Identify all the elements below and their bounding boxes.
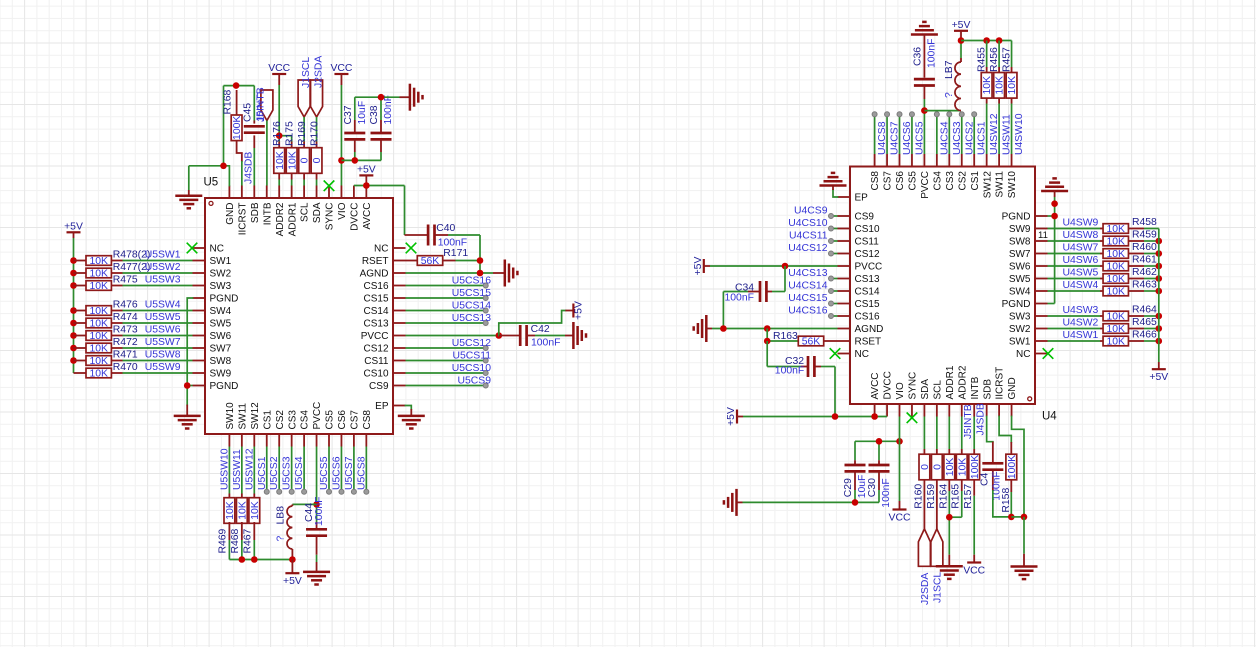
svg-text:C29: C29: [843, 478, 854, 497]
svg-text:CS7: CS7: [883, 171, 894, 191]
svg-text:CS8: CS8: [362, 410, 373, 430]
svg-text:SDA: SDA: [920, 379, 931, 400]
ground PGND U5: [174, 405, 201, 429]
connector flag J2SDA: [311, 56, 325, 117]
svg-text:PVCC: PVCC: [312, 402, 323, 430]
wire LB7 bottom: [924, 110, 961, 112]
power +5V (U4 PVCC): [693, 257, 710, 276]
resistor R159: [926, 417, 944, 529]
no-connect NC U4 left: [830, 348, 841, 359]
wire U4SW8: [1048, 240, 1101, 242]
svg-text:R459: R459: [1132, 230, 1157, 241]
svg-text:VIO: VIO: [337, 202, 348, 219]
wire C29 C30 top rail: [855, 441, 900, 460]
wire GND net top-left: [189, 86, 230, 190]
node U5CS15: [452, 288, 491, 301]
ground EP U4: [820, 173, 847, 190]
svg-text:10K: 10K: [89, 256, 108, 267]
svg-text:U5CS8: U5CS8: [356, 456, 367, 490]
resistor R171: [406, 248, 469, 267]
svg-text:U5SW12: U5SW12: [244, 448, 255, 490]
svg-text:CS3: CS3: [945, 171, 956, 191]
svg-text:10K: 10K: [982, 76, 993, 95]
wire U4CS13: [834, 278, 838, 280]
wire U4CS3 column: [948, 117, 950, 154]
svg-text:10K: 10K: [89, 319, 108, 330]
node U5SW5: [145, 312, 181, 323]
svg-text:U5CS2: U5CS2: [269, 456, 280, 490]
node U5CS6: [331, 456, 344, 494]
junction AVCC +5V: [363, 182, 370, 189]
wire R467 to +5V rail: [253, 540, 255, 560]
svg-text:CS7: CS7: [350, 410, 361, 430]
svg-text:SW9: SW9: [210, 369, 232, 380]
svg-text:PGND: PGND: [210, 381, 239, 392]
svg-text:NC: NC: [210, 244, 224, 255]
junction C36-LB7: [921, 107, 928, 114]
svg-text:U5SW11: U5SW11: [232, 449, 243, 490]
svg-text:100K: 100K: [1007, 455, 1018, 479]
resistor R456: [989, 47, 1006, 104]
junction R455 top: [983, 37, 990, 44]
wire R157 to VCC: [973, 496, 975, 555]
svg-text:PVCC: PVCC: [855, 262, 883, 273]
wire U4CS8 column: [874, 117, 876, 154]
ground EP U5: [398, 409, 425, 429]
svg-text:IICRST: IICRST: [995, 367, 1006, 400]
svg-text:R461: R461: [1132, 255, 1157, 266]
svg-text:SW4: SW4: [1009, 287, 1031, 298]
wire U5SW8: [123, 360, 193, 362]
svg-text:ADDR1: ADDR1: [945, 365, 956, 399]
svg-text:U4SW10: U4SW10: [1014, 113, 1025, 155]
wire SDB to C4: [987, 417, 993, 442]
svg-text:R159: R159: [926, 484, 937, 509]
wire U5CS2 column: [278, 447, 280, 490]
wire U4CS5 column: [911, 117, 913, 154]
svg-text:CS16: CS16: [363, 281, 388, 292]
svg-text:R475: R475: [113, 275, 138, 286]
node U5SW12: [244, 448, 255, 490]
node U5SW4: [145, 300, 181, 311]
svg-text:CS6: CS6: [895, 171, 906, 191]
wire R175 to ADDR1: [291, 180, 293, 186]
junction rail-U5SW6: [70, 332, 77, 339]
svg-text:11: 11: [1038, 230, 1048, 241]
svg-text:R163: R163: [773, 331, 798, 342]
wire RSET to C32: [767, 341, 801, 367]
ground PGND U4: [1041, 178, 1068, 197]
node U5SW2: [145, 262, 181, 273]
svg-text:10K: 10K: [275, 151, 286, 170]
node U5CS12: [452, 338, 491, 351]
svg-text:U5CS13: U5CS13: [452, 313, 491, 324]
junction C29 bottom: [852, 499, 859, 506]
svg-text:GND: GND: [1007, 377, 1018, 399]
wire R158 to GND node: [1010, 492, 1012, 517]
resistor R170: [310, 121, 324, 180]
node U5SW8: [145, 350, 181, 361]
svg-text:U4SW2: U4SW2: [1063, 318, 1099, 329]
power VCC (below VIO): [889, 501, 911, 524]
svg-text:SW12: SW12: [982, 171, 993, 199]
svg-text:R467: R467: [242, 528, 253, 553]
wire R464 to rail: [1144, 315, 1159, 317]
wire PVCC bottom column: [316, 447, 318, 523]
svg-text:R473: R473: [113, 325, 138, 336]
svg-text:10K: 10K: [957, 458, 968, 477]
junction RSET node: [477, 257, 484, 264]
wire LB8 top: [292, 503, 316, 505]
svg-text:SW5: SW5: [210, 319, 232, 330]
capacitor C42: [499, 324, 561, 349]
svg-text:R474: R474: [113, 312, 138, 323]
svg-text:CS12: CS12: [363, 344, 388, 355]
svg-text:SW1: SW1: [1009, 337, 1031, 348]
svg-text:0: 0: [932, 464, 943, 470]
svg-text:CS15: CS15: [855, 299, 880, 310]
junction R467 rail: [251, 556, 258, 563]
svg-text:U5CS14: U5CS14: [452, 301, 491, 312]
svg-text:CS12: CS12: [855, 249, 880, 260]
svg-text:10K: 10K: [1107, 274, 1126, 285]
wire +5V to R456: [998, 41, 1000, 68]
junction R460 rail: [1156, 250, 1163, 257]
node U5SW10: [219, 448, 230, 490]
svg-text:CS6: CS6: [337, 410, 348, 430]
wire R455 to pin: [986, 104, 988, 155]
svg-text:+5V: +5V: [693, 257, 704, 276]
junction R168 top: [233, 82, 240, 89]
no-connect NC U5 left: [187, 243, 198, 254]
wire EP to ground: [406, 406, 412, 410]
wire caps top to ground: [355, 97, 400, 120]
node U5SW11: [232, 449, 243, 490]
node U5CS5: [319, 456, 332, 494]
svg-text:56K: 56K: [421, 256, 440, 267]
svg-text:SW3: SW3: [210, 281, 232, 292]
junction C38 top: [378, 94, 385, 101]
node U5CS10: [452, 363, 491, 376]
wire VIO to VCC: [899, 417, 901, 502]
junction AGND node: [477, 270, 484, 277]
svg-text:U4SW12: U4SW12: [989, 113, 1000, 155]
node U4CS4: [934, 112, 950, 155]
svg-text:CS4: CS4: [932, 171, 943, 191]
wire PGND1 to PGND2 chain: [187, 298, 192, 405]
junction R465 rail: [1156, 325, 1163, 332]
wire +5V top rail U4: [961, 41, 1012, 68]
svg-text:U5CS4: U5CS4: [294, 456, 305, 490]
junction ADDR pulldown: [946, 514, 953, 521]
wire +5V rail U5 top: [354, 186, 405, 236]
svg-text:J4SDB: J4SDB: [976, 403, 987, 435]
svg-text:SW2: SW2: [210, 269, 232, 280]
svg-text:PVCC: PVCC: [920, 171, 931, 199]
svg-text:ADDR2: ADDR2: [957, 365, 968, 399]
wire C32 to +5V rail: [821, 367, 835, 417]
wire U5SW6: [123, 335, 193, 337]
wire INTB column: [266, 121, 268, 186]
power +5V (U4 top): [952, 20, 971, 41]
svg-text:J2SDA: J2SDA: [920, 573, 931, 605]
svg-text:U4CS13: U4CS13: [788, 268, 827, 279]
junction VIO caps: [338, 157, 345, 164]
junction rail-U5SW7: [70, 345, 77, 352]
svg-text:10K: 10K: [250, 501, 261, 520]
wire U4SW1: [1048, 340, 1101, 342]
svg-text:J2SDA: J2SDA: [314, 56, 325, 88]
junction +5V LB7: [958, 37, 965, 44]
wire U5CS12: [406, 347, 484, 349]
svg-text:SW8: SW8: [210, 356, 232, 367]
svg-text:R472: R472: [113, 337, 138, 348]
node U4SW12: [989, 113, 1000, 155]
svg-text:R463: R463: [1132, 280, 1157, 291]
wire U5SW7: [123, 347, 193, 349]
wire R164 R165 to ground: [949, 491, 961, 555]
resistor R469: [217, 494, 236, 554]
svg-text:SCL: SCL: [932, 380, 943, 400]
wire +5V right rail: [1158, 229, 1160, 363]
wire cap bottom rail: [341, 152, 381, 160]
svg-text:SW6: SW6: [1009, 262, 1031, 273]
svg-text:CS14: CS14: [855, 287, 880, 298]
junction GND node 1: [1008, 514, 1015, 521]
wire C42 to ground: [535, 335, 565, 337]
svg-text:R168: R168: [222, 89, 233, 114]
svg-text:U4SW4: U4SW4: [1063, 280, 1099, 291]
wire U4CS11: [834, 240, 838, 242]
ground top-middle: [400, 84, 423, 111]
no-connect NC U4 right: [1043, 348, 1054, 359]
resistor R160: [913, 417, 931, 529]
svg-text:PVCC: PVCC: [361, 331, 389, 342]
svg-text:J4SDB: J4SDB: [244, 152, 255, 184]
wire U4CS10: [834, 228, 838, 230]
junction rail-U5SW3: [70, 282, 77, 289]
junction rail-U5SW8: [70, 357, 77, 364]
svg-text:J5INTB: J5INTB: [255, 87, 266, 122]
node U4CS16: [788, 306, 833, 319]
capacitor C36: [912, 39, 937, 99]
wire R169 to SCL pin: [303, 180, 305, 186]
wire U5SW4: [123, 310, 193, 312]
svg-text:+5V: +5V: [1149, 372, 1168, 383]
resistor R467: [242, 494, 261, 554]
svg-text:10K: 10K: [1107, 324, 1126, 335]
svg-text:0: 0: [312, 157, 323, 163]
resistor R461: [1100, 255, 1157, 273]
svg-text:R462: R462: [1132, 267, 1157, 278]
wire C34 left to AGND: [723, 292, 748, 329]
svg-text:PGND: PGND: [1002, 212, 1031, 223]
wire U5CS1 column: [266, 447, 268, 490]
wire U4CS12: [834, 253, 838, 255]
wire U4SW6: [1048, 265, 1101, 267]
svg-text:CS9: CS9: [369, 381, 389, 392]
svg-text:J1SCL: J1SCL: [932, 572, 943, 603]
svg-text:RSET: RSET: [855, 337, 882, 348]
junction C30 top: [876, 438, 883, 445]
svg-text:CS14: CS14: [363, 306, 388, 317]
wire U4SW3: [1048, 315, 1101, 317]
svg-text:U5SW2: U5SW2: [145, 262, 181, 273]
wire C34 right leg: [772, 266, 785, 292]
svg-text:CS11: CS11: [855, 237, 880, 248]
junction PGND2: [184, 382, 191, 389]
svg-text:10K: 10K: [287, 151, 298, 170]
svg-text:U4SW1: U4SW1: [1063, 330, 1099, 341]
wire R168 to IICRST: [241, 161, 243, 186]
svg-text:R457: R457: [1002, 47, 1013, 72]
wire R466 to rail: [1144, 340, 1159, 342]
IC U5: [193, 177, 406, 447]
node U4SW10: [1014, 113, 1025, 155]
junction PGND upper: [1051, 200, 1058, 207]
node U5CS7: [344, 456, 357, 494]
node U5SW6: [145, 325, 181, 336]
node U5CS16: [452, 276, 491, 289]
capacitor C44: [304, 497, 327, 555]
no-connect NC U5 right: [406, 243, 417, 254]
wire U4CS15: [834, 303, 838, 305]
node U5CS4: [294, 456, 307, 494]
svg-text:R466: R466: [1132, 330, 1157, 341]
ground C42: [565, 322, 586, 349]
wire C36 bottom to PVCC: [923, 99, 925, 154]
svg-text:LB8: LB8: [275, 506, 286, 525]
wire U5CS14: [406, 310, 484, 312]
wire U4CS7 column: [886, 117, 888, 154]
svg-text:SDB: SDB: [982, 379, 993, 400]
svg-text:CS13: CS13: [363, 319, 388, 330]
svg-text:C36: C36: [912, 47, 923, 66]
svg-text:CS1: CS1: [262, 410, 273, 430]
wire C40 to RSET node: [448, 235, 480, 261]
junction PVCC-C34: [782, 263, 789, 270]
svg-text:SCL: SCL: [300, 202, 311, 222]
junction R468 rail: [239, 556, 246, 563]
resistor R460: [1100, 242, 1157, 260]
wire U4SW9: [1048, 228, 1101, 230]
wire R468 to +5V rail: [241, 540, 243, 560]
connector flag J2SDA (U4): [918, 529, 931, 605]
wire SDA column: [316, 117, 318, 142]
node U5CS3: [282, 456, 295, 494]
svg-text:10K: 10K: [1107, 224, 1126, 235]
svg-text:CS13: CS13: [855, 274, 880, 285]
svg-text:10K: 10K: [1107, 237, 1126, 248]
svg-text:R469: R469: [217, 528, 228, 553]
svg-text:R158: R158: [1001, 488, 1012, 513]
svg-text:SW3: SW3: [1009, 312, 1031, 323]
svg-text:C40: C40: [436, 223, 455, 234]
wire U4SW7: [1048, 253, 1101, 255]
svg-text:SYNC: SYNC: [908, 372, 919, 400]
svg-text:R465: R465: [1132, 317, 1157, 328]
junction GND node 2: [1021, 514, 1028, 521]
svg-text:U5SW10: U5SW10: [219, 448, 230, 490]
capacitor C29: [843, 460, 868, 498]
resistor R165: [951, 417, 969, 509]
node U5SW3: [145, 275, 181, 286]
svg-text:RSET: RSET: [362, 256, 389, 267]
svg-text:U4CS11: U4CS11: [789, 231, 828, 242]
svg-text:LB7: LB7: [944, 60, 955, 79]
wire AGND to RSET: [767, 329, 798, 342]
svg-text:R169: R169: [297, 121, 308, 146]
svg-text:10K: 10K: [1107, 312, 1126, 323]
svg-text:100nF: 100nF: [531, 338, 560, 349]
wire C44 to ground: [316, 555, 318, 562]
capacitor C4: [980, 442, 1004, 501]
node U4CS7: [885, 112, 901, 155]
junction RSET-C32: [764, 338, 771, 345]
wire U5SW2: [123, 272, 193, 274]
wire R170 to SDA pin: [316, 180, 318, 186]
wire U5SW3: [123, 285, 193, 287]
resistor R472: [74, 337, 138, 355]
node U4CS9: [794, 206, 834, 219]
resistor R474: [74, 312, 138, 330]
svg-text:+5V: +5V: [64, 221, 83, 232]
resistor R471: [74, 350, 138, 368]
svg-text:U4SW6: U4SW6: [1063, 255, 1099, 266]
capacitor C37: [343, 101, 368, 152]
connector flag J1SCL (U4): [931, 529, 944, 603]
svg-text:R455: R455: [977, 47, 988, 72]
svg-text:CS2: CS2: [275, 410, 286, 430]
svg-text:VCC: VCC: [330, 63, 352, 74]
svg-text:DVCC: DVCC: [883, 371, 894, 399]
svg-text:VCC: VCC: [889, 513, 911, 524]
node U4SW1: [1063, 330, 1099, 341]
capacitor C34: [725, 281, 773, 304]
wire R171 to node: [456, 261, 481, 274]
wire R461 to rail: [1144, 265, 1159, 267]
svg-text:100nF: 100nF: [881, 478, 892, 507]
wire GND pin jog: [1012, 417, 1024, 517]
wire U4CS9: [834, 215, 838, 217]
wire U5CS9: [406, 385, 484, 387]
wire GND to ground: [1023, 517, 1025, 554]
resistor R463: [1100, 280, 1157, 298]
junction R459 rail: [1156, 238, 1163, 245]
svg-text:PGND: PGND: [210, 294, 239, 305]
svg-text:10K: 10K: [89, 369, 108, 380]
junction GND net: [220, 163, 227, 170]
wire R465 to rail: [1144, 328, 1159, 330]
svg-text:R160: R160: [913, 484, 924, 509]
svg-text:CS10: CS10: [855, 224, 880, 235]
svg-text:U4CS15: U4CS15: [788, 293, 827, 304]
svg-text:CS16: CS16: [855, 312, 880, 323]
resistor R475: [74, 275, 138, 293]
ground C36 top: [911, 22, 938, 78]
wire U5CS13: [406, 322, 484, 324]
svg-text:CS11: CS11: [364, 356, 389, 367]
svg-text:100nF: 100nF: [725, 293, 754, 304]
no-connect SYNC U5: [324, 181, 335, 192]
node U4SW3: [1063, 305, 1099, 316]
wire U5SW1: [123, 260, 193, 262]
svg-text:100nF: 100nF: [775, 366, 804, 377]
wire AGND row U4: [712, 328, 838, 330]
svg-text:U4CS16: U4CS16: [788, 306, 827, 317]
wire AGND row: [406, 272, 494, 274]
svg-text:+5V: +5V: [573, 301, 584, 320]
